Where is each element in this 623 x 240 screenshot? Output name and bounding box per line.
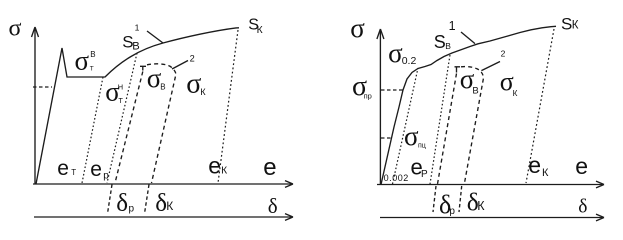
svg-text:К: К xyxy=(477,199,485,213)
svg-text:S: S xyxy=(561,14,572,33)
svg-text:1: 1 xyxy=(135,22,140,32)
svg-text:e: e xyxy=(90,158,102,181)
svg-text:К: К xyxy=(200,87,206,97)
svg-text:e: e xyxy=(263,154,276,181)
svg-text:К: К xyxy=(221,166,227,177)
svg-text:B: B xyxy=(445,41,451,51)
svg-text:пр: пр xyxy=(364,92,372,101)
svg-text:e: e xyxy=(208,153,221,179)
svg-text:К: К xyxy=(542,167,549,179)
svg-text:e: e xyxy=(57,157,69,180)
svg-text:2: 2 xyxy=(501,49,506,59)
svg-text:e: e xyxy=(528,152,541,178)
svg-text:e: e xyxy=(575,153,588,179)
svg-text:В: В xyxy=(160,83,165,92)
svg-text:пц: пц xyxy=(418,143,426,150)
svg-text:р: р xyxy=(129,204,135,215)
svg-text:Р: Р xyxy=(421,169,428,180)
svg-text:К: К xyxy=(572,20,579,32)
svg-text:Т: Т xyxy=(90,66,94,73)
svg-text:Т: Т xyxy=(118,96,123,105)
svg-text:B: B xyxy=(132,40,139,52)
svg-text:Н: Н xyxy=(118,83,123,92)
svg-text:р: р xyxy=(449,206,455,217)
svg-text:0.002: 0.002 xyxy=(384,173,409,183)
svg-text:δ: δ xyxy=(116,190,128,217)
svg-text:δ: δ xyxy=(578,197,587,218)
svg-text:1: 1 xyxy=(449,19,456,33)
svg-text:σ: σ xyxy=(9,16,22,42)
svg-text:р: р xyxy=(103,171,109,182)
svg-text:Т: Т xyxy=(71,168,76,177)
svg-text:К: К xyxy=(257,25,263,36)
svg-text:σ: σ xyxy=(186,69,201,100)
svg-text:2: 2 xyxy=(190,54,195,64)
svg-text:В: В xyxy=(472,85,478,96)
svg-text:В: В xyxy=(90,50,95,59)
svg-text:σ: σ xyxy=(75,46,90,76)
svg-text:σ: σ xyxy=(350,13,365,43)
svg-text:0.2: 0.2 xyxy=(402,55,417,67)
svg-text:S: S xyxy=(434,32,446,52)
svg-text:К: К xyxy=(166,199,173,213)
svg-text:δ: δ xyxy=(268,194,278,218)
svg-text:К: К xyxy=(513,89,518,98)
svg-text:σ: σ xyxy=(404,121,419,151)
